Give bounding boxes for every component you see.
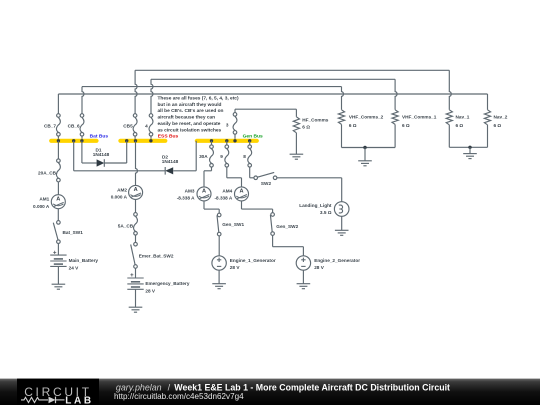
svg-text:CB_7: CB_7 bbox=[44, 123, 56, 128]
switch Bat_SW1 bbox=[53, 221, 83, 244]
wire 5A_CB to Emer_Bat_SW2 bbox=[135, 235, 137, 242]
annotation note text bbox=[158, 95, 239, 133]
wire D1 cathode to ESS Bus bbox=[104, 141, 126, 163]
svg-text:1N4148: 1N4148 bbox=[162, 159, 179, 164]
node Bat Bus bbox=[51, 133, 108, 140]
lamp Landing_Light 3.5ohm bbox=[299, 202, 349, 217]
svg-text:easily be reset, and operate: easily be reset, and operate bbox=[158, 121, 221, 127]
switch Emer_Bat_SW2 bbox=[131, 242, 174, 268]
svg-text:Landing_Light: Landing_Light bbox=[299, 203, 332, 208]
svg-text:28 V: 28 V bbox=[314, 265, 325, 270]
ammeter AM2 bbox=[111, 185, 143, 199]
ammeter AM4 bbox=[214, 187, 248, 201]
svg-text:Gen_SW2: Gen_SW2 bbox=[276, 224, 298, 229]
resistor Nav_2 6ohm bbox=[484, 110, 507, 128]
svg-text:24 V: 24 V bbox=[69, 266, 80, 271]
junction dots Gen Bus bbox=[210, 139, 252, 142]
fuse CB_6 bbox=[68, 114, 84, 136]
ground VHF_Comms bbox=[358, 148, 372, 166]
svg-text:Nav_1: Nav_1 bbox=[456, 115, 470, 120]
wire VHF common ground net bbox=[342, 124, 396, 147]
diode D2 1N4148 bbox=[162, 155, 179, 175]
wire Gen_SW2 to Engine_2_Generator bbox=[273, 236, 304, 256]
wire riser CB5 with hops bbox=[135, 70, 137, 113]
svg-text:ESS Bus: ESS Bus bbox=[158, 133, 179, 139]
fuse 4 bbox=[145, 114, 153, 136]
wire AM4 to Gen_SW2 bbox=[242, 201, 273, 213]
wire Bat Bus to D1 anode bbox=[82, 141, 97, 163]
svg-text:These are all fuses (7, 6, 5,: These are all fuses (7, 6, 5, 4, 3, etc) bbox=[158, 95, 239, 101]
node ESS Bus bbox=[120, 133, 178, 140]
voltage source Engine_2_Generator 28V bbox=[296, 256, 360, 270]
svg-text:AM1: AM1 bbox=[39, 197, 49, 202]
svg-text:5A_CB: 5A_CB bbox=[118, 223, 134, 228]
svg-text:Emergency_Battery: Emergency_Battery bbox=[145, 281, 189, 286]
footer title text bbox=[116, 382, 450, 392]
wire fuse 8 to SW2 bbox=[250, 167, 254, 178]
wire D2 anode to Gen Bus left end bbox=[173, 141, 196, 171]
svg-text:aircraft because they can: aircraft because they can bbox=[158, 115, 216, 121]
wire Nav common ground net bbox=[449, 125, 487, 148]
svg-text:Bat Bus: Bat Bus bbox=[90, 133, 109, 139]
svg-text:all be CB's. CB's are used on: all be CB's. CB's are used on bbox=[158, 108, 224, 114]
svg-text:but in an aircraft they would: but in an aircraft they would bbox=[158, 102, 222, 108]
fuse 3 bbox=[226, 113, 237, 135]
resistor VHF_Comms_2 6ohm bbox=[338, 110, 383, 128]
wire Bat_SW1 to Main_Battery bbox=[57, 244, 59, 256]
svg-text:CB_6: CB_6 bbox=[68, 123, 80, 128]
fuse 8 bbox=[243, 145, 251, 167]
svg-text:3: 3 bbox=[226, 123, 229, 128]
wire 20A_CB to AM1 bbox=[57, 182, 59, 195]
wire Bat Bus dot to D2 net bbox=[74, 141, 166, 171]
wire riser CB_6 with hop bbox=[82, 87, 84, 114]
footer url text bbox=[114, 392, 244, 401]
svg-text:LAB: LAB bbox=[65, 396, 93, 405]
svg-text:VHF_Comms_2: VHF_Comms_2 bbox=[349, 115, 384, 120]
svg-text:Bat_SW1: Bat_SW1 bbox=[63, 230, 84, 235]
svg-text:Engine_2_Generator: Engine_2_Generator bbox=[314, 258, 360, 263]
svg-text:http://circuitlab.com/c4e53dn6: http://circuitlab.com/c4e53dn62v7g4 bbox=[114, 392, 244, 401]
wire ESS Bus to AM2 (hop over D2 net) bbox=[136, 141, 138, 186]
svg-text:Nav_2: Nav_2 bbox=[494, 115, 508, 120]
fuse 30A bbox=[199, 145, 213, 167]
logo CircuitLab box bbox=[17, 379, 99, 405]
fuse 5A_CB bbox=[118, 213, 138, 236]
svg-text:9: 9 bbox=[220, 154, 223, 159]
switch SW2 bbox=[254, 172, 277, 186]
wire net fuse3 to HF_Comms (y=109.2) bbox=[235, 109, 296, 117]
wire Bat Bus to 20A_CB bbox=[57, 141, 59, 159]
wire 30A to AM3 bbox=[204, 167, 212, 187]
logo LAB text bbox=[65, 396, 93, 405]
svg-text:-8.338 A: -8.338 A bbox=[177, 195, 195, 200]
wire net fuse4 to VHF_Comms_1 (y=79.3) bbox=[151, 78, 395, 80]
wire drop VHF_Comms_2 with hop bbox=[342, 87, 344, 110]
svg-text:A: A bbox=[56, 197, 60, 203]
wire Emer_Bat_SW2 to Emergency_Battery bbox=[135, 268, 137, 278]
svg-text:SW2: SW2 bbox=[261, 181, 272, 186]
wire fuse 9 to AM4 bbox=[227, 167, 242, 187]
svg-text:CB5: CB5 bbox=[123, 123, 133, 128]
wire AM3 to Gen_SW1 bbox=[204, 201, 219, 213]
fuse 20A_CB bbox=[38, 159, 60, 182]
resistor VHF_Comms_1 6ohm bbox=[392, 110, 437, 128]
svg-text:0.000 A: 0.000 A bbox=[111, 195, 128, 200]
svg-text:AM4: AM4 bbox=[222, 189, 232, 194]
svg-text:6 Ω: 6 Ω bbox=[349, 123, 357, 128]
svg-text:30A: 30A bbox=[199, 154, 208, 159]
wire Gen_SW1 to Engine_1_Generator bbox=[218, 236, 220, 256]
wire Gen Bus to fuse 9 bbox=[226, 141, 228, 145]
wire net CB_6 to VHF_Comms_2 (y=86.6) bbox=[82, 86, 342, 88]
resistor Nav_1 6ohm bbox=[446, 110, 470, 128]
svg-text:Main_Battery: Main_Battery bbox=[69, 258, 99, 263]
resistor HF_Comms 6ohm bbox=[293, 117, 328, 133]
wire AM2 to 5A_CB bbox=[135, 199, 137, 212]
node Gen Bus bbox=[197, 133, 263, 140]
svg-text:28 V: 28 V bbox=[230, 265, 241, 270]
wire net CB5 to Nav_1 (y=70.3) bbox=[135, 69, 449, 71]
junction dots Bat Bus bbox=[57, 139, 84, 142]
switch Gen_SW1 bbox=[217, 213, 244, 236]
svg-text:3.5 Ω: 3.5 Ω bbox=[320, 210, 332, 215]
ground Landing_Light bbox=[335, 216, 349, 235]
voltage source Engine_1_Generator 28V bbox=[212, 256, 276, 270]
wire AM1 to Bat_SW1 bbox=[57, 209, 59, 221]
svg-text:6 Ω: 6 Ω bbox=[302, 125, 310, 130]
wire drop VHF_Comms_1 with hop bbox=[395, 79, 397, 110]
ground Main_Battery bbox=[52, 266, 66, 289]
svg-text:Emer_Bat_SW2: Emer_Bat_SW2 bbox=[139, 254, 174, 259]
svg-text:VHF_Comms_1: VHF_Comms_1 bbox=[402, 115, 437, 120]
svg-text:HF_Comms: HF_Comms bbox=[302, 117, 328, 122]
svg-text:as circuit isolation switches: as circuit isolation switches bbox=[158, 128, 222, 134]
svg-text:6 Ω: 6 Ω bbox=[456, 123, 464, 128]
ground HF_Comms bbox=[290, 133, 304, 159]
wire Gen Bus to fuse 30A bbox=[211, 141, 213, 145]
svg-text:6 Ω: 6 Ω bbox=[494, 123, 502, 128]
fuse CB5 bbox=[123, 114, 137, 136]
switch Gen_SW2 bbox=[270, 213, 298, 236]
logo CIRCUIT text bbox=[24, 385, 92, 399]
ground Emergency_Battery bbox=[129, 289, 143, 312]
svg-text:AM2: AM2 bbox=[117, 187, 127, 192]
ammeter AM3 bbox=[177, 187, 211, 201]
svg-text:20A_CB: 20A_CB bbox=[38, 170, 57, 175]
svg-text:Gen_SW1: Gen_SW1 bbox=[222, 222, 244, 227]
svg-text:0.000 A: 0.000 A bbox=[33, 204, 50, 209]
svg-text:A: A bbox=[134, 187, 138, 193]
svg-text:6 Ω: 6 Ω bbox=[402, 123, 410, 128]
wire riser fuse 4 with hops bbox=[151, 79, 153, 113]
svg-text:8: 8 bbox=[243, 154, 246, 159]
svg-text:28 V: 28 V bbox=[145, 288, 156, 293]
diode D1 1N4148 bbox=[93, 147, 110, 166]
svg-text:A: A bbox=[202, 189, 206, 195]
svg-text:AM3: AM3 bbox=[185, 189, 195, 194]
wire Gen Bus to fuse 8 bbox=[249, 141, 251, 145]
battery Main_Battery 24V bbox=[50, 250, 98, 270]
battery Emergency_Battery 28V bbox=[127, 273, 190, 293]
junction dot VHF ground net bbox=[363, 146, 366, 149]
svg-text:4: 4 bbox=[145, 123, 148, 128]
wire drop Nav_1 with hop bbox=[449, 70, 451, 110]
ammeter AM1 bbox=[33, 195, 65, 209]
svg-text:Gen Bus: Gen Bus bbox=[243, 133, 263, 139]
fuse CB_7 bbox=[44, 114, 60, 136]
ground Engine_1_Generator bbox=[212, 270, 226, 289]
wire fuse stubs to buses bbox=[58, 134, 235, 140]
svg-text:Engine_1_Generator: Engine_1_Generator bbox=[230, 258, 276, 263]
svg-text:1N4148: 1N4148 bbox=[93, 152, 110, 157]
junction dot Nav ground net bbox=[468, 146, 471, 149]
junction dots ESS Bus bbox=[125, 139, 153, 142]
wire SW2 to Landing_Light bbox=[277, 178, 342, 202]
ground Nav bbox=[463, 147, 477, 158]
fuse 9 bbox=[220, 145, 228, 167]
svg-text:A: A bbox=[239, 189, 243, 195]
svg-text:-8.338 A: -8.338 A bbox=[214, 195, 232, 200]
logo resistor-diode squiggle bbox=[21, 397, 65, 404]
wire net CB_7 to Nav_2 (y=94) bbox=[58, 94, 487, 114]
ground Engine_2_Generator bbox=[297, 270, 311, 289]
